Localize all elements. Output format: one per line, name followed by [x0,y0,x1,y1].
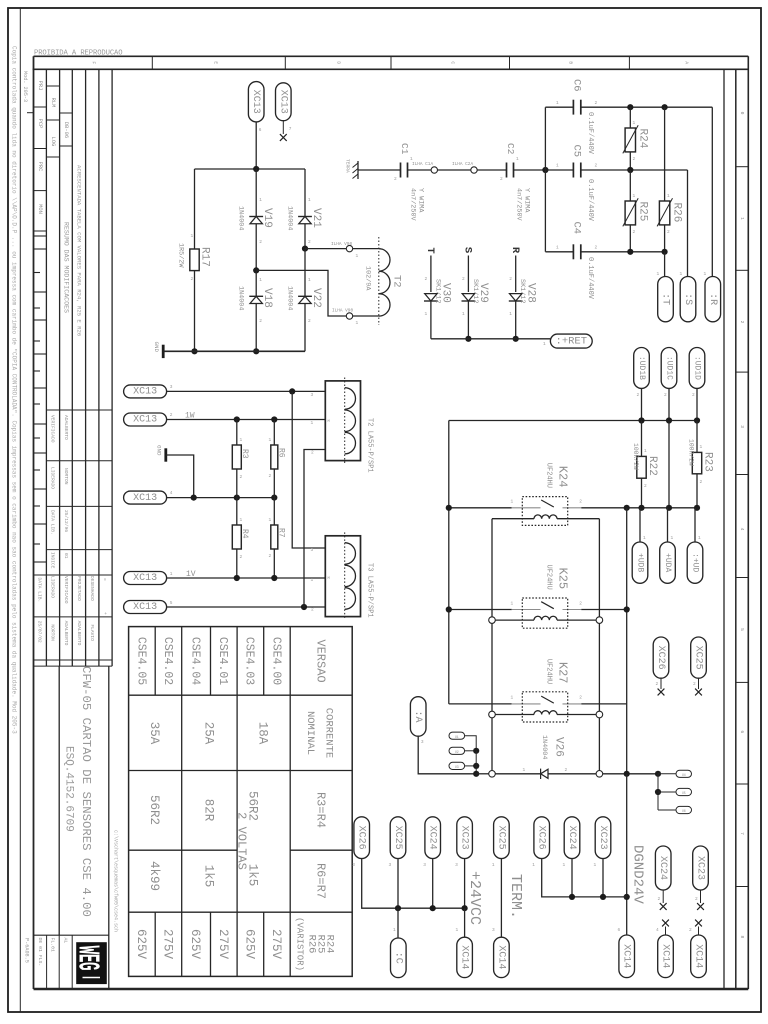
junction row1/T3 drop [289,388,295,394]
svg-text:56R2: 56R2 [147,795,161,825]
svg-text:B: B [568,61,574,64]
svg-text:Mod. 205-3: Mod. 205-3 [22,71,28,102]
relay K24 lead stub left [512,507,541,509]
svg-text:1: 1 [511,600,514,606]
ground symbol GND mid [164,448,167,461]
svg-text:+: + [102,612,107,615]
wire ilha C1A to ilha C2A [438,169,471,171]
junction ground rail / V18 [253,348,259,354]
svg-text:2: 2 [595,163,598,169]
svg-text:2: 2 [311,450,314,456]
svg-text:PRJ: PRJ [37,81,43,91]
svg-text::R: :R [707,293,718,305]
svg-text:2: 2 [425,276,428,282]
relay K27 blade [541,696,554,703]
revision table col2 cells [46,85,59,87]
svg-text:DESENHADO: DESENHADO [89,576,95,601]
terminal :A [410,697,426,737]
wire row1 to T2 pin3 [167,390,326,392]
svg-text:P-6A08.5: P-6A08.5 [23,938,29,963]
wire V22 to ground rail end [304,304,306,352]
connector XC14 pin6 [619,935,635,978]
relay K27 dotted box [522,692,567,722]
svg-text:XC25: XC25 [495,826,506,850]
wire XC23-3 to bus1 [464,859,466,909]
svg-text:U3: U3 [455,765,459,769]
junction C5/R24/R25 [627,167,633,173]
svg-text:ESQ.4152.6709: ESQ.4152.6709 [62,746,74,832]
svg-text:ACRESCENTADA TABELA COM VALORE: ACRESCENTADA TABELA COM VALORES PARA R24… [76,165,83,336]
resistor R6 [273,420,275,446]
svg-text:1R5/2W: 1R5/2W [176,243,184,268]
relay K25 contact row wire left [449,609,512,611]
svg-text:1: 1 [356,253,359,259]
svg-text:1: 1 [516,156,519,162]
svg-text:C4: C4 [571,222,583,235]
wire GND mid to row3 [166,455,194,498]
svg-text:K25: K25 [556,568,570,590]
svg-text:0.1uF/440V: 0.1uF/440V [586,112,594,155]
diode V26 [541,769,548,778]
svg-text:1N4004: 1N4004 [285,206,293,230]
svg-text:XC14: XC14 [693,944,704,968]
title bottom strip cells [46,935,48,989]
relay box right side [598,519,600,771]
relay K24 contact row wire left [449,507,512,509]
junction V26 rail / pads [473,771,479,777]
svg-text:AL: AL [62,938,68,944]
junction mid-left node [253,267,259,273]
svg-text:100R/2W: 100R/2W [687,439,694,466]
svg-text:7: 7 [739,832,745,835]
svg-text:2: 2 [565,767,568,773]
svg-text:275V: 275V [269,929,283,960]
connector XC13 pin7 [276,83,292,121]
svg-text:1: 1 [657,271,660,277]
svg-text:1: 1 [543,341,546,347]
svg-text:XC23: XC23 [459,826,470,850]
svg-text:82R: 82R [202,799,216,822]
relay box bottom-right pad [596,771,603,778]
no-connect X XC24-2 [662,890,664,903]
junction C4/R25 [627,249,633,255]
relay K25 coil row [489,617,496,624]
junction row2/R6 [271,416,277,422]
junction ground rail / R17 [191,348,197,354]
wire S to V29 [467,256,469,293]
svg-text::UD1C: :UD1C [665,356,674,380]
svg-text:3: 3 [352,862,355,868]
svg-text:1: 1 [269,517,272,523]
svg-text:R22: R22 [646,456,658,476]
wire row4 to T3 pin1 [167,577,326,579]
svg-text:Copia controlada quando lida n: Copia controlada quando lida no diretori… [11,46,18,734]
wire T3 pin3 feed [292,391,325,548]
wire XC24-1 to bus2 [571,859,573,897]
wire top rail [195,168,306,170]
wire K24 rail extension to R23 [627,507,697,509]
svg-text:1: 1 [240,517,243,523]
svg-text:3: 3 [389,862,392,868]
svg-text:RLM: RLM [50,98,56,108]
wire V18 to ground rail [255,304,257,352]
relay K25 dotted box [522,598,567,628]
svg-text:2: 2 [579,695,582,701]
terminal :T [658,277,674,322]
wire V21 to right node [304,224,306,249]
svg-text:INDICE: INDICE [50,552,56,569]
connector XC23 pin1 [595,817,611,859]
svg-text:4n7/250V: 4n7/250V [408,188,416,222]
svg-text:R4: R4 [240,529,249,539]
capacitor C2 [506,163,508,178]
capacitor C5 [545,169,573,171]
svg-text:2: 2 [633,156,636,162]
junction K24 rail / R22 [638,505,644,511]
svg-text:F: F [91,61,97,64]
svg-text:1: 1 [393,927,396,933]
mini terminal pad 1 [449,732,465,739]
connector XC26 pin2 unused [653,637,669,678]
svg-text:PRC: PRC [37,162,43,172]
svg-text:2: 2 [259,239,262,245]
svg-text:U1: U1 [455,735,459,739]
svg-text:2: 2 [633,229,636,235]
junction filter node [542,167,548,173]
net DGND24V drop [626,774,628,935]
WEG logo [76,942,107,984]
wire +UDB drop [639,508,641,542]
svg-text:4n7/250V: 4n7/250V [514,188,522,222]
mini terminal pad 4 [676,770,692,777]
svg-text:GND: GND [156,445,163,456]
junction rail / DGND drop [624,771,630,777]
svg-text:625V: 625V [134,929,148,960]
svg-text:R23: R23 [701,452,713,472]
resistor R3 [236,420,238,446]
junction bus2/XC23-1 [600,894,606,900]
svg-text:PROJETADO: PROJETADO [76,576,82,601]
terminal :UD1C [661,348,677,389]
connector XC23 pin2 unused [693,846,709,890]
relay K24 coil on box edge [492,518,534,520]
svg-text:1: 1 [356,320,359,326]
wire pad1 to drop [465,736,477,751]
svg-text::A: :A [412,710,423,722]
wire ground rail [163,350,305,352]
svg-text:Y WIMA: Y WIMA [416,188,424,213]
title block right edge [108,666,110,989]
relay K25 lead stub right [563,609,582,611]
wire C6 to top right corner [581,106,713,108]
version table header column line [289,627,291,977]
svg-text:(VARISTOR): (VARISTOR) [295,917,305,971]
current sensor T3 block [325,536,360,617]
svg-text:2: 2 [462,276,465,282]
relay box bottom-left pad [489,771,496,778]
svg-text:2: 2 [739,321,745,324]
wire left relay bus [448,421,450,704]
svg-text:XC26: XC26 [356,826,367,850]
svg-text:ADALBERTO: ADALBERTO [76,621,82,646]
right zone ticks [736,166,749,168]
svg-text:5: 5 [170,600,173,606]
left control-strip line [19,8,21,1012]
junction top rail / XC13-6 [253,166,259,172]
wire V30 to RET rail [430,301,432,339]
svg-text:3: 3 [170,384,173,390]
svg-text:Y WIMA: Y WIMA [522,188,530,213]
transformer T2 toroid winding [378,237,380,325]
mini terminal pad 2 [449,747,465,754]
connector XC13 pin2 [124,413,167,426]
svg-text:625V: 625V [188,929,202,960]
connector XC13 pin6 [248,82,264,122]
svg-text:2: 2 [579,499,582,505]
svg-text:625V: 625V [242,929,256,960]
svg-text:1: 1 [698,535,701,541]
svg-text:6: 6 [618,927,621,933]
junction right bus / K24 [624,505,630,511]
frame left line [33,56,35,989]
relay K25 lead stub left [512,609,541,611]
svg-text:NOMINAL: NOMINAL [304,711,316,755]
wire XC24-3 to bus1 [432,859,434,909]
svg-text:DATA LIB.: DATA LIB. [37,578,43,603]
svg-text:2: 2 [595,100,598,106]
svg-text:XC24: XC24 [566,826,577,850]
svg-text::+UD: :+UD [691,553,700,572]
wire mid node to ilha V90 bottom [256,270,346,316]
relay K27 contact row wire left [449,703,512,705]
svg-text:ADALBERTO: ADALBERTO [63,415,69,440]
svg-text:R6: R6 [276,448,285,458]
svg-text:DGND24V: DGND24V [630,845,646,904]
wire C5 row to :S drop [581,169,688,171]
wire V26 rail right [603,773,658,775]
svg-text:R26: R26 [670,203,682,223]
svg-text:3: 3 [455,862,458,868]
svg-text:2: 2 [240,474,243,480]
svg-text:E: E [213,61,219,64]
junction UD/R22 [638,417,644,423]
junction right bus / K25 [624,606,630,612]
svg-text:0.1uF/440V: 0.1uF/440V [586,179,594,222]
junction row4/R4 [234,575,240,581]
svg-text:0: 0 [739,112,745,115]
svg-text:XC13: XC13 [133,573,157,584]
connector XC25 pin2 unused [691,637,707,678]
svg-text:4: 4 [170,490,173,496]
ilha C2A pad [471,167,477,173]
svg-text:1: 1 [633,193,636,199]
svg-text:XC13: XC13 [133,387,157,398]
wire C2 to filter node [514,169,546,171]
no-connect X on XC13-7 [280,134,287,141]
connector XC14 pin4 [658,935,674,978]
wire V26 rail left [476,773,489,775]
svg-text:4: 4 [739,528,745,531]
wire R to V28 [515,256,517,293]
svg-text:4k99: 4k99 [147,861,161,891]
svg-text:V26: V26 [552,737,564,757]
resistor R4 [236,498,238,525]
svg-text:100R/2W: 100R/2W [632,443,639,470]
connector XC25 pin1 [494,817,510,859]
connector XC23 pin3 [457,817,473,859]
svg-text:RESUMO DAS MODIFICACOES: RESUMO DAS MODIFICACOES [62,222,69,313]
svg-text:DB-06: DB-06 [63,122,69,138]
svg-text:1: 1 [556,245,559,251]
svg-text:V18: V18 [261,288,273,308]
wire ilha C2A to C2 [477,169,506,171]
relay K24 dotted box [522,497,567,526]
svg-text:1: 1 [643,535,646,541]
svg-text:VERIFICADO: VERIFICADO [50,415,56,443]
svg-text:275V: 275V [216,929,230,960]
svg-text:2: 2 [509,276,512,282]
relay K25 contact row wire right [581,609,626,611]
svg-text:XC23: XC23 [695,856,706,880]
capacitor C1 [400,163,402,178]
diode V21 [304,169,306,217]
svg-text:ILHA V90: ILHA V90 [331,242,352,247]
svg-text:C1: C1 [399,143,410,155]
terminal :C [391,938,407,978]
diode V29 [462,294,474,301]
wire :S drop [687,170,689,277]
terminal +UD [687,542,703,583]
svg-text:CSE4.02: CSE4.02 [161,637,174,685]
svg-text::UD1D: :UD1D [693,356,702,380]
svg-text:XC24: XC24 [427,826,438,850]
svg-text:2: 2 [259,318,262,324]
svg-text:T3 LA55-P/SP1: T3 LA55-P/SP1 [365,563,373,618]
svg-text:R: R [509,247,521,254]
wire pad2 junction [465,750,477,752]
wire T2 pin2 to row5 [304,450,325,608]
svg-text:1: 1 [492,862,495,868]
frame inner top line [33,68,749,70]
junction row4/R7 [271,575,277,581]
svg-text:S: S [462,247,474,253]
svg-text:1: 1 [170,571,173,577]
ilha C1A pad [431,167,437,173]
svg-text:NORTON: NORTON [50,624,56,641]
svg-text:3: 3 [311,392,314,398]
svg-text:ADALBERTO: ADALBERTO [63,621,69,646]
svg-text:3: 3 [311,547,314,553]
varistor R25 [629,170,631,201]
svg-text:4: 4 [656,927,659,933]
svg-text:D: D [336,61,342,64]
connector XC13 pin4 [124,491,167,504]
connector XC14 pin2 [691,935,707,978]
wire V26 to box right pad [548,773,596,775]
no-connect X above XC14-4 [662,920,669,927]
svg-text:XC25: XC25 [392,826,403,850]
svg-text:1: 1 [667,193,670,199]
svg-text:+UDA: +UDA [663,553,672,572]
svg-text:6: 6 [259,127,262,133]
svg-text:+24VCC: +24VCC [466,871,483,925]
svg-text:ILHA C2A: ILHA C2A [452,162,473,167]
junction bus1/XC24-3 [430,905,436,911]
connector XC25 pin3 [390,817,406,859]
ilha V90 bottom pad [346,313,352,319]
terminal :R [705,277,721,322]
svg-text:U4: U4 [682,773,686,777]
diode V22 [304,249,306,297]
wire row2 to T2 pin1 [167,419,326,421]
svg-text:TERM.: TERM. [507,874,524,919]
schematic inner border right [723,69,725,989]
svg-text:1: 1 [462,311,465,317]
junction right node A [302,246,308,252]
svg-text:CSE4.03: CSE4.03 [243,637,256,685]
junction K24 rail / +UDA [666,505,672,511]
svg-text:0.1uF/440V: 0.1uF/440V [586,257,594,300]
no-connect X XC23-2 [700,890,702,903]
relay K24 blade [541,500,554,507]
svg-text:C: C [450,61,456,64]
svg-text:1: 1 [523,767,526,773]
wire :UD1C to UD rail [668,388,670,420]
svg-text:01: 01 [63,553,69,559]
svg-text:R7: R7 [276,528,285,538]
svg-text:2: 2 [644,483,647,489]
junction bus2/XC24-1 [569,894,575,900]
diode V28 [510,294,522,301]
svg-text:2: 2 [269,553,272,559]
svg-text:V29: V29 [477,283,489,303]
svg-text:1: 1 [269,437,272,443]
junction bus1/XC23-3 [462,905,468,911]
svg-text:1: 1 [644,448,647,454]
svg-text:FLAVIO: FLAVIO [89,624,95,641]
svg-text:6: 6 [739,730,745,733]
svg-text:WEG: WEG [69,946,103,971]
diode V18 [255,270,257,296]
svg-text:V28: V28 [524,283,536,303]
svg-text:LIDERADO: LIDERADO [50,467,56,489]
svg-text:1: 1 [511,695,514,701]
svg-text::+RET: :+RET [556,335,588,347]
svg-text:C2: C2 [505,143,516,155]
relay K24 contact row wire right [581,507,626,509]
svg-text:U2: U2 [455,750,459,754]
svg-text:18A: 18A [256,722,270,745]
wire C1 to ilha C1A [408,169,432,171]
svg-text::UD1B: :UD1B [637,356,646,380]
svg-text:1: 1 [191,233,194,239]
resistor R17 [190,249,199,271]
svg-text:V22: V22 [310,288,322,308]
wire T to V30 [430,256,432,293]
svg-text:1: 1 [425,311,428,317]
no-connect X XC26-2 [660,678,662,689]
version table pair column lines [181,695,183,912]
svg-text:2: 2 [191,276,194,282]
relay K24 lead stub right [563,507,582,509]
svg-text:XC14: XC14 [459,945,470,969]
svg-text:1N4004: 1N4004 [285,286,293,310]
svg-text:VERSAO: VERSAO [314,639,328,682]
svg-text:2: 2 [308,318,311,324]
svg-text:ILHA C1A: ILHA C1A [412,162,433,167]
svg-text:2 VOLTAS: 2 VOLTAS [235,812,249,870]
junction row3/GND [191,495,197,501]
